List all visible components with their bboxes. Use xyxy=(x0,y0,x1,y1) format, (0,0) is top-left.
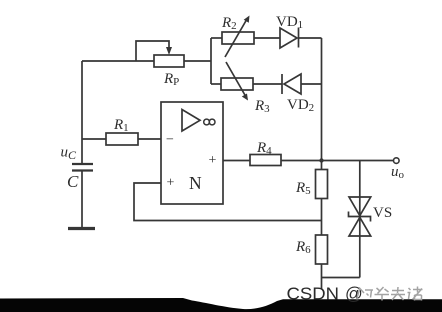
wire op-amp output to R4 xyxy=(223,160,250,162)
svg-text:+: + xyxy=(167,176,175,191)
svg-text:@: @ xyxy=(345,284,363,304)
output terminal circle xyxy=(394,158,400,164)
black censor band xyxy=(0,298,442,312)
op-amp infinity symbol left loop xyxy=(204,119,210,125)
svg-text:R1: R1 xyxy=(113,117,129,134)
RP wiper arrowhead xyxy=(166,47,172,55)
ground xyxy=(68,227,95,230)
wire R2 to VD1 xyxy=(254,37,280,39)
wire VD2 to right vertical xyxy=(301,83,322,85)
op-amp infinity symbol right loop xyxy=(209,119,215,125)
svg-text:R4: R4 xyxy=(256,140,272,157)
node A junction dot xyxy=(319,158,323,162)
wire branch vertical xyxy=(210,38,212,84)
capacitor C bottom plate xyxy=(72,169,93,171)
wire R3 to VD2 xyxy=(253,83,282,85)
watermark glyph zhu xyxy=(408,287,423,301)
zener VS lower triangle xyxy=(349,217,371,236)
watermark glyph zhuo xyxy=(357,288,374,300)
wire branch to R2 xyxy=(211,37,222,39)
diode VD2 cathode bar xyxy=(281,74,283,94)
capacitor C top plate xyxy=(72,163,93,165)
resistor R2 body xyxy=(222,32,254,44)
wire R5 to R6 xyxy=(321,199,323,236)
svg-text:uo: uo xyxy=(391,164,405,181)
zener VS bar xyxy=(349,212,371,222)
resistor R3 body xyxy=(221,78,253,90)
wire RP wiper xyxy=(136,41,169,61)
svg-text:uC: uC xyxy=(61,145,78,163)
wire RP to diode branch xyxy=(184,60,211,62)
svg-text:VD2: VD2 xyxy=(287,97,314,114)
wire VS vertical xyxy=(359,161,361,278)
svg-text:CSDN: CSDN xyxy=(287,284,340,304)
svg-text:RP: RP xyxy=(163,71,179,88)
diode VD1 cathode bar xyxy=(298,28,300,48)
wire top-left horizontal to RP xyxy=(82,60,154,62)
wire R4 to node A xyxy=(281,160,322,162)
resistor R2 arrowhead xyxy=(244,16,250,23)
resistor R3 arrow xyxy=(226,62,246,96)
diode VD2 triangle xyxy=(284,74,301,94)
wire branch to R3 xyxy=(211,83,221,85)
resistor R6 body xyxy=(316,235,328,264)
wire VD1 to right vertical xyxy=(299,37,322,39)
svg-text:+: + xyxy=(209,153,217,168)
wire right vertical (diode return) xyxy=(321,38,323,161)
op-amp N box xyxy=(161,102,223,204)
svg-text:−: − xyxy=(166,133,174,148)
resistor R1 body xyxy=(106,133,138,145)
svg-text:R6: R6 xyxy=(295,239,311,256)
svg-text:C: C xyxy=(67,172,79,191)
potentiometer RP body xyxy=(154,55,184,67)
diode VD1 triangle xyxy=(280,28,297,48)
wire R6 bottom stub xyxy=(321,264,323,289)
wire node A to output terminal xyxy=(322,160,394,162)
wire node A to R5 xyxy=(321,161,323,170)
svg-text:R5: R5 xyxy=(295,180,311,197)
wire left vertical (uC node) xyxy=(81,61,83,163)
svg-text:VS: VS xyxy=(373,205,392,221)
watermark glyph hua xyxy=(375,287,390,301)
wire R1 to op-amp inverting input xyxy=(138,138,161,140)
wire bottom VS return xyxy=(322,277,360,279)
wire capacitor to ground xyxy=(81,171,83,227)
wire feedback to non-inverting input xyxy=(134,183,322,221)
svg-text:R3: R3 xyxy=(254,98,270,115)
resistor R4 body xyxy=(250,155,281,166)
op-amp gain triangle xyxy=(182,110,200,132)
svg-text:R2: R2 xyxy=(221,15,237,32)
svg-text:VD1: VD1 xyxy=(276,14,303,31)
resistor R2 arrow xyxy=(225,19,247,57)
svg-text:N: N xyxy=(189,173,202,193)
wire uC to R1 xyxy=(82,138,106,140)
watermark glyph fu xyxy=(391,287,405,300)
zener VS upper triangle xyxy=(349,197,371,216)
resistor R3 arrowhead xyxy=(242,94,248,101)
resistor R5 body xyxy=(316,170,328,199)
